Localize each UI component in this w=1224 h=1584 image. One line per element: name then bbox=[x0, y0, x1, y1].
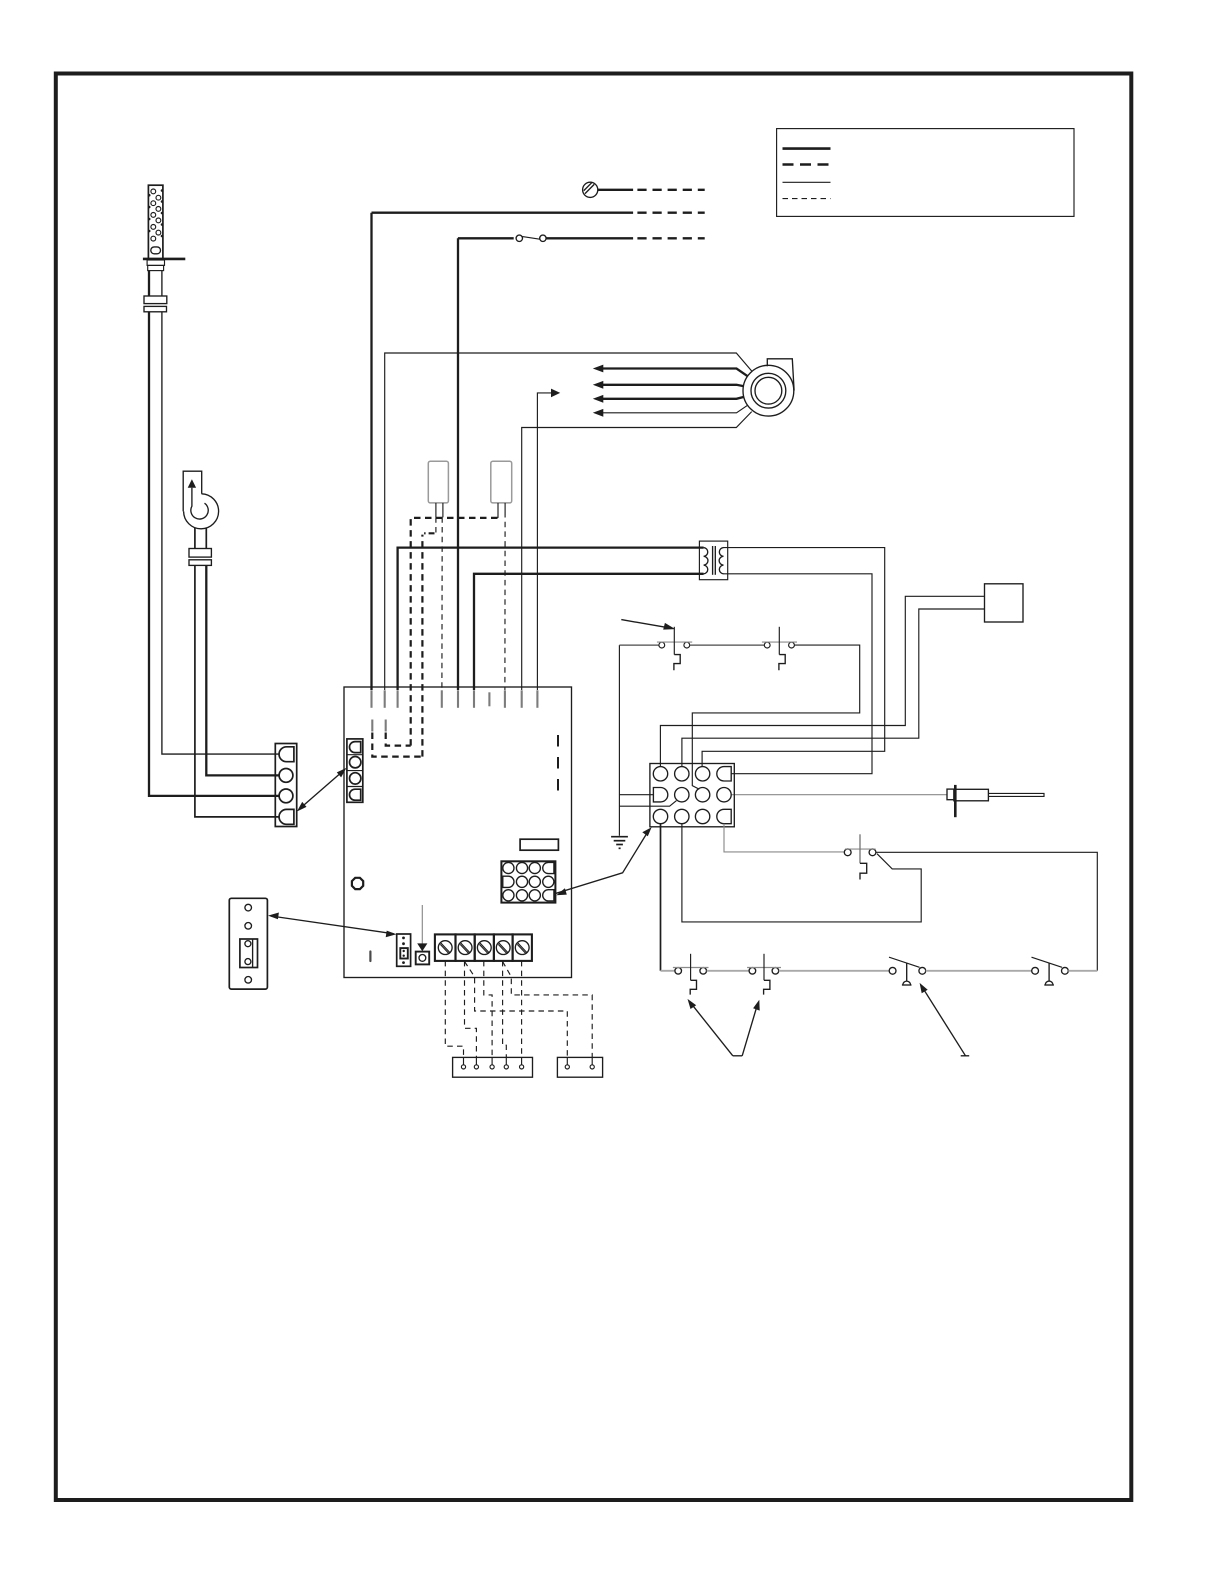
door switch arrow to jumper bbox=[271, 916, 394, 934]
primary wire bottom from board pin 6 bbox=[474, 574, 704, 690]
dashed wire T4 bbox=[503, 961, 507, 1058]
ground screw symbol bbox=[583, 182, 598, 197]
annotation arrow to limit 1 bbox=[621, 620, 667, 628]
dashed wire T5 bbox=[521, 961, 523, 1058]
screw heads bbox=[438, 941, 529, 955]
igniter plug 1 bbox=[428, 461, 448, 503]
blower door switch C (NO) bbox=[889, 957, 926, 985]
primary winding bbox=[704, 548, 708, 574]
pin 12 (D) bbox=[717, 809, 731, 823]
secondary winding bbox=[719, 548, 723, 574]
wire between limits bbox=[690, 644, 765, 646]
flame sensor rod bbox=[988, 793, 1044, 796]
pin 2 bbox=[279, 769, 293, 783]
dashed wire T3 bbox=[484, 961, 492, 1058]
primary wire top from board pin 3 bbox=[398, 548, 704, 690]
wire ground bus to plug pin 5 (D) bbox=[619, 794, 653, 796]
grommet 1 bbox=[189, 549, 211, 558]
mating arrow to board connector bbox=[555, 830, 650, 894]
core bbox=[712, 546, 714, 575]
plug 1 right lead dashed to pin 4 bbox=[441, 517, 443, 690]
page border frame bbox=[56, 74, 1132, 1501]
ground symbol bbox=[611, 836, 628, 838]
wire B to C bbox=[779, 970, 889, 972]
legend line sample 3 (thin solid) bbox=[783, 181, 831, 183]
board edge pin stubs bbox=[372, 690, 538, 731]
limit switch 2 bbox=[762, 627, 797, 671]
board tick bbox=[369, 952, 371, 962]
box wire 2 to plug pin 2 bbox=[682, 609, 985, 767]
wire plug pin 8 to flame sensor bbox=[731, 794, 947, 796]
legend line sample 2 (heavy dashed) bbox=[783, 163, 831, 166]
board interior dashed wire from pin 2 bbox=[386, 733, 411, 746]
jumper header bbox=[397, 934, 411, 966]
pin 3 bbox=[279, 789, 293, 803]
thermostat strip 2 bbox=[557, 1057, 602, 1077]
board label rect bbox=[520, 839, 558, 850]
wire rollout to aux limit loop bbox=[876, 852, 1097, 971]
igniter plug dashed wire 1 bbox=[422, 533, 434, 756]
dashed wire T4 branch bbox=[503, 962, 593, 1058]
inducer blower housing scroll bbox=[767, 359, 794, 391]
igniter lead right run bbox=[162, 312, 280, 754]
tube lead right run bbox=[206, 565, 279, 775]
pin 6 bbox=[675, 788, 689, 802]
board interior dashed wire from pin 1 bbox=[372, 733, 422, 757]
pin 4 (D) bbox=[717, 767, 731, 781]
test terminal bbox=[416, 952, 430, 965]
board mounting pad bbox=[352, 878, 363, 889]
junction box bbox=[985, 584, 1024, 622]
harness continuation arrow wire bbox=[537, 393, 552, 690]
door interlock switch on L2 line bbox=[458, 235, 705, 241]
igniter lead left run bbox=[149, 312, 280, 796]
12 pin plug housing bbox=[650, 764, 734, 827]
flame sensor body bbox=[954, 789, 989, 801]
transformer box bbox=[699, 541, 727, 580]
door switch plate bbox=[229, 898, 267, 989]
pin 5 (D) bbox=[653, 788, 667, 802]
pin 7 bbox=[695, 788, 709, 802]
motor lead 1 bbox=[593, 365, 748, 377]
aux limit switch B (NC) bbox=[747, 954, 781, 995]
pin 2 bbox=[675, 767, 689, 781]
annotation arrow to switch C bbox=[920, 983, 970, 1056]
wire C to D bbox=[926, 970, 1032, 972]
inducer harness bottom boundary wire bbox=[522, 412, 752, 690]
limit wire bbox=[619, 644, 659, 646]
board 12 pin connector bbox=[501, 861, 555, 902]
rollout switch (NC) bbox=[844, 834, 876, 879]
motor lead 3 bbox=[593, 395, 744, 403]
plug 2 right lead dashed to pin 8 bbox=[504, 512, 506, 690]
legend box bbox=[777, 129, 1074, 217]
dashed wire T1 bbox=[445, 961, 463, 1058]
igniter tube body bbox=[148, 185, 163, 259]
wire plug pin 9 down to switch string bbox=[660, 824, 662, 971]
test terminal down arrow bbox=[417, 905, 427, 951]
wire plug pin 12 down to rollout switch bbox=[724, 824, 844, 852]
grommet 2 bbox=[144, 306, 167, 311]
igniter plug dashed wire 2 bbox=[411, 518, 498, 746]
legend line sample 1 (heavy solid) bbox=[783, 147, 831, 150]
pin 1 (D) bbox=[279, 747, 294, 762]
blower door switch D (NO) bbox=[1032, 957, 1069, 985]
dashed wire T2 bbox=[465, 961, 477, 1058]
pin 11 bbox=[695, 809, 709, 823]
tube lead left run bbox=[195, 565, 280, 817]
interior dashed vertical marks bbox=[557, 735, 559, 796]
secondary wire bottom to plug pin 4 bbox=[724, 574, 873, 774]
pin 3 bbox=[695, 767, 709, 781]
wire L1 down to board pin 1 bbox=[370, 213, 372, 690]
flow arrow with inner curl bbox=[188, 479, 196, 488]
inducer harness top boundary wire bbox=[385, 353, 752, 690]
inducer hub ring bbox=[751, 373, 786, 408]
wire to aux switch A bbox=[661, 970, 675, 972]
igniter holes bbox=[151, 189, 161, 241]
inducer hub bbox=[755, 377, 782, 404]
mating arrow to board connector bbox=[300, 771, 344, 809]
dashed wire T2 branch bbox=[465, 962, 568, 1058]
igniter slot bbox=[151, 247, 161, 254]
wire L2 down to board pin 5 bbox=[457, 238, 459, 690]
plug 1 left lead dashed bbox=[435, 517, 437, 533]
ground supply wire (solid then dashed) bbox=[598, 189, 705, 191]
motor lead 2 bbox=[593, 381, 744, 389]
motor lead 4 bbox=[593, 405, 748, 417]
board 4 pin connector bbox=[347, 739, 363, 802]
wire rollout diagonal to plug pin 10 bbox=[682, 824, 921, 922]
secondary wire top to plug pin 3 bbox=[702, 548, 885, 767]
grommet 1 bbox=[144, 296, 167, 304]
thermostat strip 1 bbox=[453, 1057, 533, 1077]
mounting flange bbox=[143, 258, 185, 261]
pin 9 bbox=[653, 809, 667, 823]
tube below scroll bbox=[194, 528, 196, 549]
control board outline bbox=[344, 687, 572, 978]
igniter plug 2 bbox=[491, 461, 512, 503]
sensing tube scroll bbox=[184, 494, 219, 529]
pin 1 bbox=[653, 767, 667, 781]
screw terminal block bbox=[435, 934, 532, 961]
4 position plug housing bbox=[275, 744, 296, 827]
pin 8 bbox=[717, 788, 731, 802]
annotation V arrow to switches A and B bbox=[688, 999, 760, 1056]
wire ground bus to plug pin 6 bbox=[619, 801, 676, 807]
sensing tube duct bbox=[183, 471, 202, 511]
box wire 1 to plug pin 1 bbox=[660, 596, 984, 767]
L1 supply wire (solid then dashed) bbox=[372, 212, 705, 214]
flame sensor bracket bbox=[954, 785, 957, 817]
limit switch 1 bbox=[657, 627, 692, 671]
wire A to B bbox=[707, 970, 749, 972]
igniter lead right bbox=[161, 271, 163, 296]
collar fittings bbox=[147, 260, 164, 265]
legend line sample 4 (thin dashed) bbox=[783, 198, 831, 200]
aux limit switch A (NC) bbox=[673, 954, 709, 995]
pin 4 (D) bbox=[279, 809, 294, 824]
grommet 2 bbox=[189, 560, 211, 566]
wire D to corner bbox=[1068, 970, 1097, 972]
flame sensor collar bbox=[947, 789, 954, 800]
igniter lead left bbox=[148, 271, 150, 296]
inducer blower housing bbox=[743, 365, 794, 416]
pin 10 bbox=[675, 809, 689, 823]
wire from limit string to plug D pin / ground bbox=[618, 645, 620, 836]
wire limit 2 to plug pin 7 bbox=[692, 645, 859, 789]
